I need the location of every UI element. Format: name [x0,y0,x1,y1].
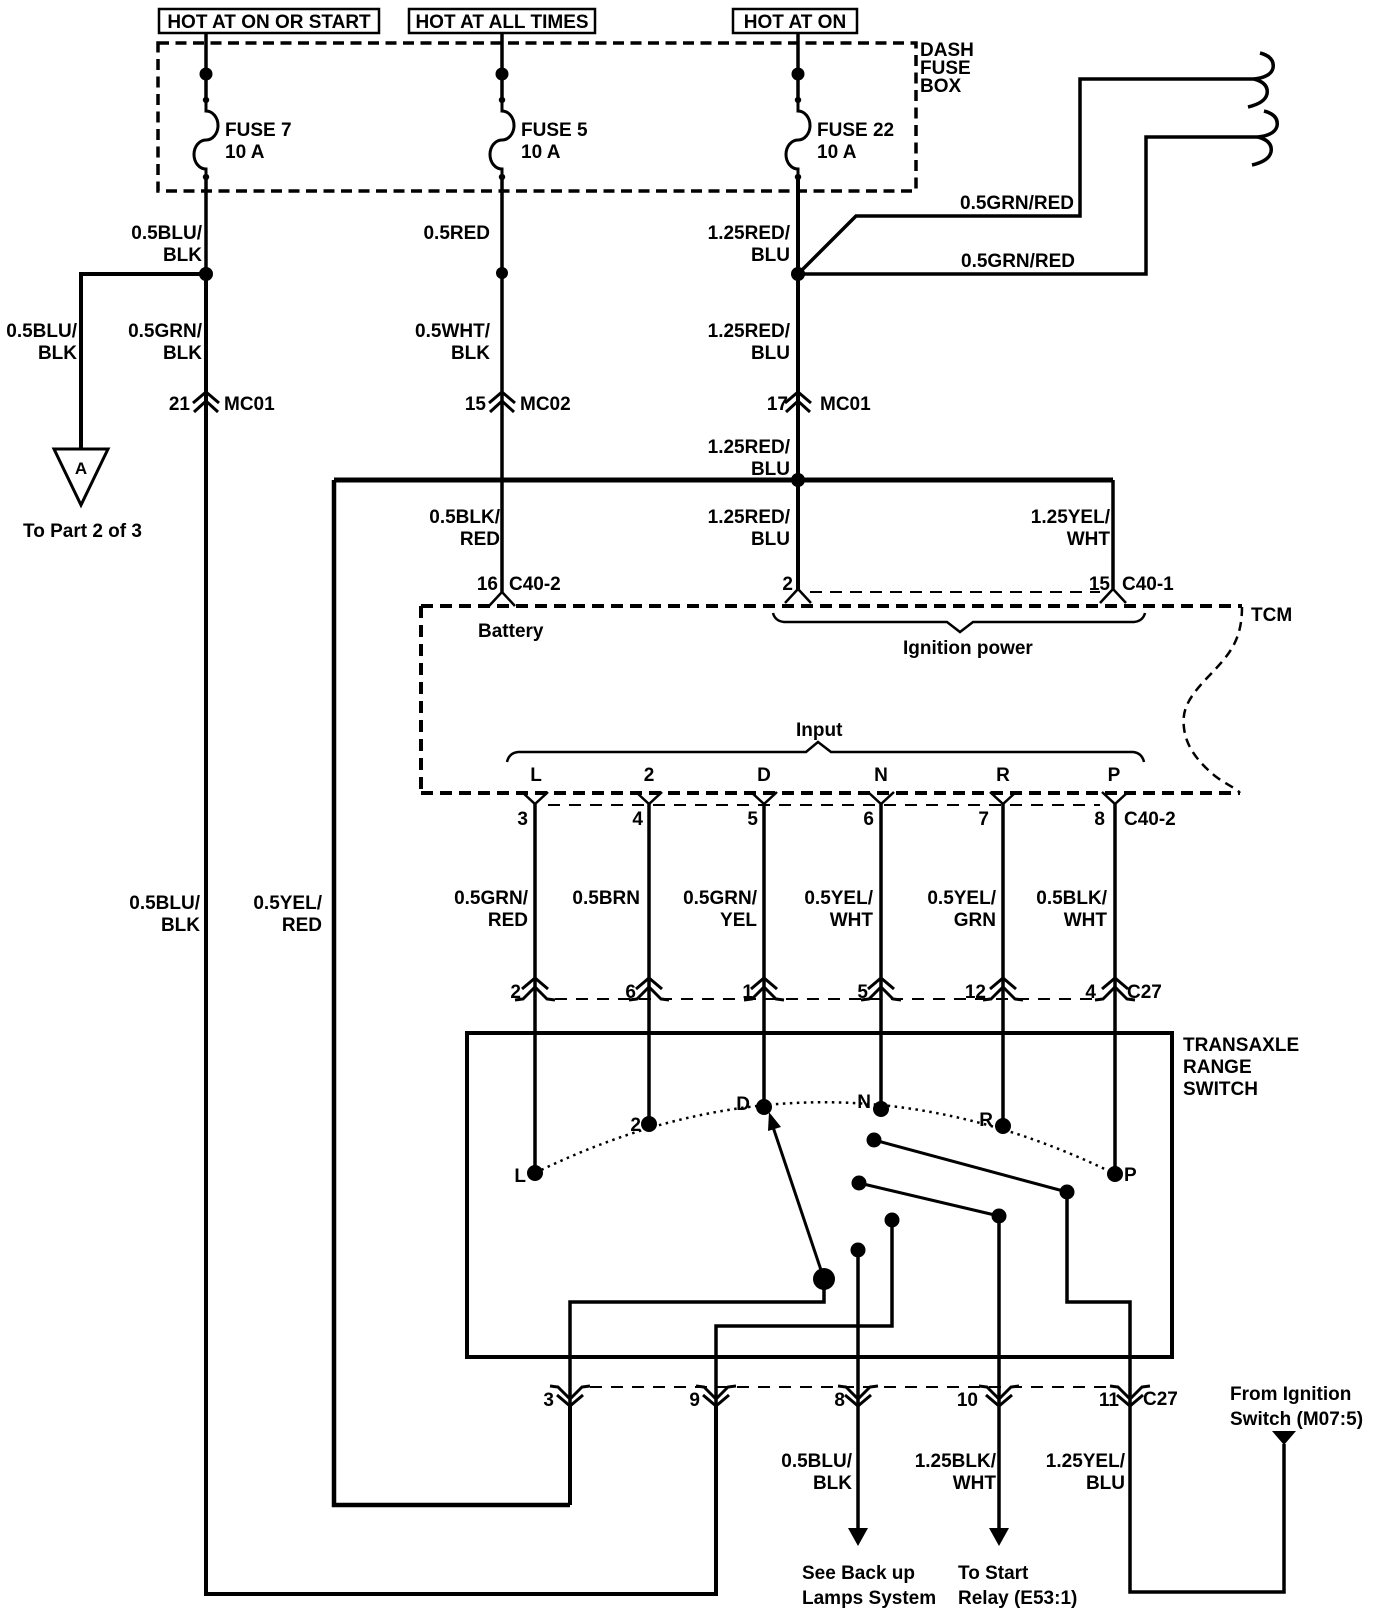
svg-text:0.5GRN/: 0.5GRN/ [683,888,758,909]
wire 0.5BLU/BLK fuse7 out [131,177,206,274]
connector C40-1 pin15 [1089,574,1174,603]
svg-text:0.5BLU/: 0.5BLU/ [6,321,77,342]
svg-text:D: D [757,765,771,786]
svg-text:RED: RED [282,915,322,936]
svg-text:0.5WHT/: 0.5WHT/ [415,321,491,342]
wire 0.5YEL/RED left bus drop [253,480,570,1505]
svg-text:BOX: BOX [920,76,962,97]
svg-text:C40-2: C40-2 [509,574,561,595]
svg-text:BLU: BLU [751,343,790,364]
svg-text:BLU: BLU [751,245,790,266]
svg-text:GRN: GRN [954,910,996,931]
wire 0.5WHT/BLK label [415,321,491,364]
node P [1108,765,1121,786]
svg-text:FUSE 7: FUSE 7 [225,120,292,141]
connector C40-2 pin16 [477,574,561,642]
wire 0.5YEL/GRN pinR [927,804,1003,1126]
node D [757,765,771,786]
wire dashed C27 row [555,998,1095,1000]
svg-text:BLK: BLK [163,343,202,364]
svg-text:0.5BRN: 0.5BRN [572,888,640,909]
wire fuse7 feed [204,33,208,100]
connector C27 pin3 [543,1386,590,1411]
wire pin3 drop [568,1406,572,1505]
node 2 [644,765,655,786]
node N [874,765,888,786]
svg-text:MC02: MC02 [520,394,571,415]
svg-text:1.25YEL/: 1.25YEL/ [1046,1451,1126,1472]
svg-text:WHT: WHT [830,910,874,931]
wire 1.25RED/BLU [708,177,798,589]
wire 0.5BLK/WHT pinP [1036,804,1115,1174]
svg-text:0.5YEL/: 0.5YEL/ [253,893,322,914]
svg-text:Input: Input [796,720,843,741]
wire 1.25RED/BLU label above pin2 [708,507,791,550]
svg-text:4: 4 [632,809,643,830]
connector C27 pin6 [625,978,669,1003]
svg-text:0.5BLU/: 0.5BLU/ [781,1451,852,1472]
svg-text:N: N [857,1092,871,1113]
svg-text:1.25BLK/: 1.25BLK/ [915,1451,997,1472]
node HOT AT ON [733,9,857,33]
svg-text:10 A: 10 A [817,142,857,163]
svg-text:0.5BLU/: 0.5BLU/ [129,893,200,914]
svg-text:N: N [874,765,888,786]
svg-text:BLU: BLU [751,459,790,480]
svg-text:0.5BLK/: 0.5BLK/ [429,507,500,528]
svg-text:A: A [75,459,87,478]
wire 0.5BLU/BLK to backup lamps [781,1406,936,1609]
wire 1.25RED/BLU label above bus [708,437,791,480]
node HOT AT ALL TIMES [409,9,595,33]
connector MC02 pin15 [465,392,571,415]
svg-text:YEL: YEL [720,910,757,931]
svg-text:WHT: WHT [1064,910,1108,931]
svg-text:L: L [514,1166,526,1187]
off-page connector A [23,449,142,542]
node R [996,765,1010,786]
svg-text:2: 2 [630,1115,641,1136]
svg-text:2: 2 [782,574,793,595]
svg-text:P: P [1108,765,1121,786]
svg-text:Lamps System: Lamps System [802,1588,936,1609]
svg-text:8: 8 [1094,809,1105,830]
svg-text:HOT AT ALL TIMES: HOT AT ALL TIMES [415,12,588,33]
svg-text:SWITCH: SWITCH [1183,1079,1258,1100]
svg-text:D: D [736,1094,750,1115]
svg-text:C40-2: C40-2 [1124,809,1176,830]
svg-text:Relay (E53:1): Relay (E53:1) [958,1588,1077,1609]
contact A2 [1060,1185,1075,1200]
svg-text:FUSE 5: FUSE 5 [521,120,588,141]
fuse F5 [490,97,588,180]
wire break symbol lower [1252,111,1277,165]
connector C40-2 pin6 [863,792,894,830]
connector C40-1 pin2 [782,574,811,603]
wire fuse5 feed [500,33,504,100]
svg-text:TRANSAXLE: TRANSAXLE [1183,1035,1299,1056]
svg-text:R: R [979,1110,993,1131]
wire 0.5GRN/RED upper branch [798,79,1254,274]
svg-text:See Back up: See Back up [802,1563,915,1584]
contact A1 [867,1133,882,1148]
connector C27 pin5 [857,978,901,1003]
connector C40-2 pin3 [517,792,548,830]
svg-text:L: L [530,765,542,786]
svg-text:6: 6 [863,809,874,830]
svg-text:11: 11 [1099,1390,1120,1411]
contact N [857,1092,889,1117]
contact B2 [992,1209,1007,1224]
junction dot [496,68,509,81]
svg-text:Battery: Battery [478,621,544,642]
connector C27 pin2 [510,978,555,1003]
svg-text:0.5GRN/: 0.5GRN/ [128,321,203,342]
wire dashed C40-1 row [810,591,1100,593]
brace ignition power [773,613,1145,659]
wire 1.25YEL/WHT bus right drop [1031,480,1113,589]
svg-text:10 A: 10 A [521,142,561,163]
wire B1-B2 bridge [859,1183,999,1216]
wire 1.25YEL/BLU from ignition switch [1046,1384,1363,1592]
svg-text:Switch (M07:5): Switch (M07:5) [1230,1409,1363,1430]
svg-text:C40-1: C40-1 [1122,574,1174,595]
svg-text:WHT: WHT [1067,529,1111,550]
wire power bus [334,478,1113,483]
wire 0.5GRN/RED lower branch [798,137,1258,274]
svg-text:9: 9 [689,1390,700,1411]
svg-text:C27: C27 [1143,1389,1178,1410]
svg-text:WHT: WHT [953,1473,997,1494]
svg-text:BLK: BLK [163,245,202,266]
svg-text:3: 3 [543,1390,554,1411]
junction node bus [791,473,805,487]
svg-text:MC01: MC01 [820,394,871,415]
connector C40-2 pin7 [978,792,1016,830]
junction node ignition branch [791,267,805,281]
transaxle range switch box [467,1033,1299,1357]
wire 0.5YEL/WHT pinN [804,804,881,1109]
wire dashed C27 bottom row [590,1386,1110,1388]
wire 0.5BLK/RED label [429,507,500,550]
dash fuse box [158,40,974,191]
svg-text:RED: RED [460,529,500,550]
svg-text:To Part 2 of 3: To Part 2 of 3 [23,521,142,542]
node L [530,765,542,786]
svg-text:RED: RED [488,910,528,931]
wire A1-A2 bridge [874,1140,1067,1192]
wire branch to part 2 [6,274,206,449]
node HOT AT ON OR START [159,9,379,33]
svg-text:RANGE: RANGE [1183,1057,1252,1078]
splice dot [496,267,508,279]
svg-text:BLU: BLU [1086,1473,1125,1494]
junction dot [792,68,805,81]
svg-text:2: 2 [644,765,655,786]
wire 1.25BLK/WHT to start relay [915,1406,1078,1609]
contact 2 [630,1115,657,1136]
svg-text:HOT AT ON OR START: HOT AT ON OR START [167,12,371,33]
connector MC01 pin17 [767,392,871,415]
svg-text:8: 8 [834,1390,845,1411]
connector C27 pin8 [834,1386,878,1411]
svg-text:1.25RED/: 1.25RED/ [708,437,791,458]
connector MC01 pin21 [169,392,275,415]
wire 0.5BLU/BLK long left run [129,274,716,1594]
svg-text:HOT AT ON: HOT AT ON [744,12,846,33]
wire dashed C40-2 row2 [548,804,1100,806]
contact B1 [852,1176,867,1191]
fuse F7 [194,97,292,180]
brace input [507,720,1144,762]
svg-text:1.25RED/: 1.25RED/ [708,223,791,244]
svg-text:17: 17 [767,394,788,415]
connector C40-2 pin4 [632,792,662,830]
svg-text:P: P [1124,1165,1137,1186]
svg-text:1.25YEL/: 1.25YEL/ [1031,507,1111,528]
svg-text:BLK: BLK [161,915,200,936]
svg-text:7: 7 [978,809,989,830]
connector C27 pin4 [1085,978,1161,1003]
wire 0.5GRN/RED pinL [454,804,535,1173]
connector C27 pin11 [1099,1386,1178,1411]
svg-text:BLK: BLK [38,343,77,364]
connector C27 pin12 [965,978,1023,1003]
svg-text:From Ignition: From Ignition [1230,1384,1351,1405]
wire 1.25RED/BLU label below junction [708,321,791,364]
svg-text:0.5YEL/: 0.5YEL/ [804,888,873,909]
wire rotor to pin3 [570,1279,824,1406]
svg-text:C27: C27 [1127,982,1162,1003]
connector C27 pin9 [689,1386,736,1411]
svg-text:10 A: 10 A [225,142,265,163]
TCM module box [421,605,1292,793]
svg-text:15: 15 [465,394,487,415]
svg-text:Ignition power: Ignition power [903,638,1033,659]
contact C1 [885,1213,900,1228]
connector C27 pin1 [742,978,784,1003]
svg-text:FUSE 22: FUSE 22 [817,120,894,141]
svg-text:R: R [996,765,1010,786]
svg-text:3: 3 [517,809,528,830]
svg-text:BLK: BLK [451,343,490,364]
svg-text:To Start: To Start [958,1563,1029,1584]
wire A2 to pin11 [1067,1192,1130,1406]
wire 0.5GRN/BLK [128,321,203,364]
wire break symbol upper [1248,53,1273,107]
wire C1 to pin9 [716,1220,892,1406]
contact P [1107,1165,1137,1186]
wire D1 to pin8 [856,1250,860,1406]
contact D1 [851,1243,866,1258]
svg-text:TCM: TCM [1251,605,1292,626]
svg-text:5: 5 [747,809,758,830]
connector C27 pin10 [957,1386,1019,1411]
svg-text:0.5GRN/RED: 0.5GRN/RED [961,251,1075,272]
junction dot [200,68,213,81]
wire B2 to pin10 [997,1216,1001,1406]
svg-text:1.25RED/: 1.25RED/ [708,321,791,342]
wire fuse22 feed [796,33,800,100]
svg-text:0.5BLU/: 0.5BLU/ [131,223,202,244]
contact D [736,1094,772,1115]
fuse F22 [786,97,894,180]
junction node fuse7/branch [199,267,213,281]
contact R [979,1110,1011,1134]
wire 0.5GRN/YEL pinD [683,804,764,1107]
wire 0.5BRN pin2 [572,804,649,1124]
svg-text:0.5RED: 0.5RED [423,223,490,244]
svg-text:0.5BLK/: 0.5BLK/ [1036,888,1107,909]
svg-text:0.5GRN/: 0.5GRN/ [454,888,529,909]
connector C40-2 pin5 [747,792,777,830]
svg-text:BLK: BLK [813,1473,852,1494]
svg-text:MC01: MC01 [224,394,275,415]
svg-text:10: 10 [957,1390,978,1411]
connector C40-2 pin8 [1094,792,1175,830]
svg-text:0.5GRN/RED: 0.5GRN/RED [960,193,1074,214]
svg-text:1.25RED/: 1.25RED/ [708,507,791,528]
svg-text:21: 21 [169,394,191,415]
svg-text:16: 16 [477,574,498,595]
switch contact arc [535,1102,1115,1174]
switch rotor arm [768,1112,835,1290]
svg-text:0.5YEL/: 0.5YEL/ [927,888,996,909]
svg-text:BLU: BLU [751,529,790,550]
contact L [514,1165,543,1187]
wire 0.5RED [423,177,502,592]
